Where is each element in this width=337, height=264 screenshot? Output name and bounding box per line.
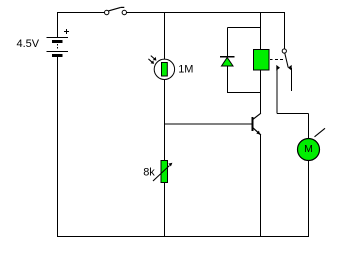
wire relay common drop from top rail: [284, 13, 286, 49]
wire diode cathode lead: [227, 28, 229, 57]
wire NO contact down: [276, 68, 278, 114]
wire LDR branch from top rail: [164, 13, 166, 61]
motor M1: [298, 128, 326, 160]
LDR R1: [148, 56, 174, 80]
wire emitter to bottom rail: [260, 135, 262, 238]
wire to motor top: [308, 114, 310, 140]
wire resistor to bottom rail: [164, 183, 166, 238]
wire NC contact stub: [291, 68, 293, 91]
diode D1 (flyback): [220, 57, 235, 67]
svg-text:4.5V: 4.5V: [17, 38, 40, 50]
wire NO contact to motor horizontal: [277, 113, 309, 115]
wire relay coil branch from top rail: [260, 13, 262, 50]
svg-text:8k: 8k: [143, 167, 155, 179]
wire relay coil bottom to transistor collector: [260, 70, 262, 114]
wire diode anode to collector node: [228, 92, 261, 94]
battery BT1 4.5V: [47, 12, 70, 56]
variable resistor R2 8k: [153, 161, 172, 183]
wire top rail right (to relay common corner): [261, 12, 286, 14]
transistor Q1 NPN: [253, 113, 261, 135]
wire top rail left (battery + to switch): [58, 12, 105, 14]
relay coil K1: [254, 50, 270, 71]
wire diode anode lead: [227, 66, 229, 93]
relay switch K1 contacts: [270, 49, 292, 71]
svg-text:1M: 1M: [178, 64, 193, 76]
wire battery negative down: [57, 57, 59, 237]
wire base (junction to transistor base): [165, 123, 253, 125]
wire diode branch horizontal: [228, 27, 261, 29]
wire motor to bottom rail: [308, 161, 310, 238]
switch SW1 (open): [105, 7, 127, 14]
wire bottom rail: [58, 236, 309, 238]
wire top rail middle (switch to relay branch): [126, 12, 260, 14]
wire LDR to junction and resistor: [164, 80, 166, 161]
svg-text:M: M: [304, 143, 313, 155]
